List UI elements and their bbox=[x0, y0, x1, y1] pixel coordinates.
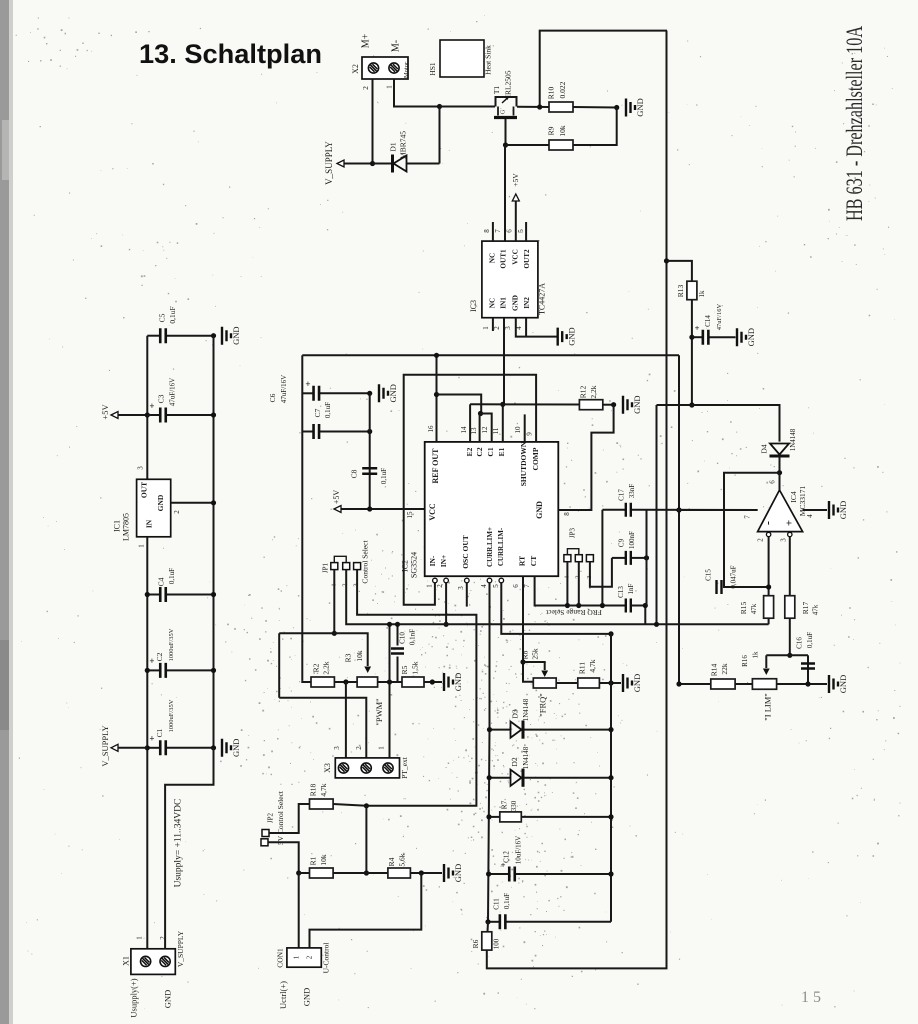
resistor R17 vertical bbox=[785, 596, 795, 619]
ground GND at R11 bbox=[623, 674, 632, 692]
ground GND at R5 bbox=[444, 673, 453, 691]
svg-text:OUT1: OUT1 bbox=[500, 249, 508, 269]
op IC3 box bbox=[482, 241, 538, 318]
node C6 right bbox=[367, 391, 372, 396]
pin stub 8 NC bbox=[492, 222, 494, 241]
svg-text:C1: C1 bbox=[486, 447, 495, 456]
svg-text:GND: GND bbox=[838, 675, 848, 693]
wire gate node to R9 bbox=[506, 144, 550, 146]
wire D4 top line bbox=[657, 405, 780, 442]
svg-text:1nF: 1nF bbox=[627, 583, 635, 594]
pin stub 6 VCC supply bbox=[515, 201, 517, 241]
svg-text:13. Schaltplan: 13. Schaltplan bbox=[139, 39, 322, 69]
svg-text:3: 3 bbox=[137, 466, 145, 470]
wire R18 right bbox=[333, 804, 366, 806]
svg-text:C11: C11 bbox=[493, 898, 501, 910]
svg-text:4: 4 bbox=[806, 514, 814, 518]
svg-text:M+: M+ bbox=[360, 33, 371, 48]
resistor R15 vertical bbox=[764, 596, 774, 619]
svg-text:1k: 1k bbox=[752, 651, 760, 659]
svg-text:+: + bbox=[784, 520, 796, 526]
svg-text:+: + bbox=[149, 401, 154, 411]
ground GND at C14 bbox=[737, 328, 746, 346]
node JP3 pin1 bbox=[565, 603, 570, 608]
pin stub 5 NC bbox=[525, 222, 527, 241]
terminal block X2 bbox=[362, 57, 408, 79]
svg-text:X2: X2 bbox=[351, 64, 360, 74]
wire V+ pin7 bbox=[676, 509, 758, 511]
feedback frame bottom to X3 pin2 bbox=[279, 698, 366, 758]
svg-text:GND: GND bbox=[567, 327, 577, 345]
capacitor C14 electrolytic bbox=[692, 336, 703, 338]
svg-text:IN2: IN2 bbox=[523, 297, 531, 309]
frq box left edge bbox=[601, 510, 603, 606]
node pin16 mid bbox=[434, 392, 439, 397]
svg-text:1N4148: 1N4148 bbox=[522, 746, 530, 769]
node frq left bottom bbox=[600, 603, 605, 608]
resistor R1 bbox=[310, 868, 334, 878]
svg-text:6: 6 bbox=[506, 229, 514, 233]
svg-text:D1: D1 bbox=[389, 142, 398, 151]
wire R3 R5 bbox=[378, 681, 402, 683]
svg-text:-: - bbox=[761, 521, 775, 525]
svg-text:TC4427A: TC4427A bbox=[537, 283, 546, 315]
frq box right edge bbox=[646, 510, 648, 606]
node C2 right bbox=[211, 668, 216, 673]
capacitor C12 electrolytic bbox=[489, 873, 509, 875]
svg-text:C2: C2 bbox=[155, 652, 164, 661]
capacitor C15 bbox=[717, 580, 722, 594]
svg-text:MC33171: MC33171 bbox=[798, 486, 807, 517]
wire X1 pin2 to gnd rail bbox=[165, 748, 213, 949]
net flag V_SUPPLY bbox=[337, 160, 344, 167]
diode D2 1N4148 bbox=[489, 777, 510, 779]
pin circle 1 bbox=[433, 578, 438, 583]
wire JP3 pin2 down bbox=[578, 562, 580, 606]
node C2 left bbox=[145, 668, 150, 673]
svg-text:+: + bbox=[149, 734, 154, 744]
wire JP1 pin2 to IN+ line bbox=[346, 570, 768, 625]
svg-text:OUT: OUT bbox=[140, 482, 149, 498]
svg-text:C17: C17 bbox=[618, 489, 626, 501]
svg-text:R5: R5 bbox=[400, 665, 409, 674]
diode D1 MBR745 bbox=[407, 163, 440, 165]
wire IN+ pin2 bbox=[445, 583, 447, 625]
node pin16 top bbox=[434, 353, 439, 358]
ground GND at C6 bbox=[379, 384, 388, 402]
svg-text:Control Select: Control Select bbox=[361, 540, 370, 584]
capacitor C7 line bbox=[302, 431, 313, 433]
svg-text:+5V: +5V bbox=[511, 173, 520, 187]
potentiometer R3 bbox=[357, 677, 378, 687]
svg-text:10k: 10k bbox=[558, 125, 567, 137]
wire R12 to GND bbox=[603, 404, 614, 406]
wire IN1 down to SG3524 E-line bbox=[503, 318, 505, 405]
svg-text:C8: C8 bbox=[350, 469, 359, 478]
node diode bus top bbox=[608, 631, 613, 636]
ground GND at IC4 bbox=[829, 501, 838, 519]
net flag +5V left bbox=[111, 412, 118, 419]
svg-text:4: 4 bbox=[480, 584, 488, 588]
wire top loop gate drive bbox=[540, 31, 667, 107]
svg-text:R1: R1 bbox=[309, 856, 318, 865]
node V+ opamp junction bbox=[676, 507, 681, 512]
resistor R7 bbox=[500, 812, 522, 822]
wire GND pin8 loop bbox=[558, 405, 613, 510]
svg-text:5: 5 bbox=[517, 229, 525, 233]
node T1-R10 bbox=[537, 104, 542, 109]
svg-text:0,1nF: 0,1nF bbox=[409, 629, 417, 645]
svg-text:R13: R13 bbox=[676, 285, 685, 298]
svg-text:GND: GND bbox=[535, 501, 544, 519]
svg-text:R8: R8 bbox=[521, 650, 530, 659]
svg-text:1 5: 1 5 bbox=[801, 989, 821, 1006]
feedback frame left bbox=[278, 633, 280, 698]
svg-text:Motor: Motor bbox=[403, 61, 410, 78]
connector CON1 bbox=[287, 948, 321, 967]
svg-text:7: 7 bbox=[523, 584, 531, 588]
svg-text:GND: GND bbox=[156, 494, 165, 511]
resistor R2 bbox=[311, 677, 334, 687]
svg-text:"FRQ": "FRQ" bbox=[537, 693, 547, 716]
capacitor C1 electrolytic bbox=[147, 747, 160, 749]
svg-text:6: 6 bbox=[769, 480, 777, 484]
svg-text:R18: R18 bbox=[309, 784, 318, 797]
svg-text:1: 1 bbox=[426, 584, 434, 588]
svg-text:GND: GND bbox=[838, 501, 848, 519]
svg-text:C15: C15 bbox=[705, 569, 713, 581]
node C4 right bbox=[211, 592, 216, 597]
svg-text:GND: GND bbox=[453, 673, 463, 691]
node C12 left bbox=[486, 871, 491, 876]
net flag +5V at IC3 bbox=[512, 194, 519, 201]
svg-text:2: 2 bbox=[306, 955, 314, 959]
svg-text:IN+: IN+ bbox=[439, 555, 448, 568]
svg-text:GND: GND bbox=[512, 295, 520, 311]
node C10 top bbox=[395, 622, 400, 627]
svg-text:M-: M- bbox=[390, 40, 401, 52]
svg-text:C2: C2 bbox=[475, 447, 484, 456]
net flag +5V VCC bbox=[334, 506, 341, 513]
wire JP1 pin1 down bbox=[333, 570, 335, 634]
wire C11 to R6 bbox=[487, 922, 490, 932]
svg-text:IN-: IN- bbox=[428, 555, 437, 566]
svg-text:X3: X3 bbox=[323, 763, 332, 773]
node R3 R5 junction bbox=[387, 679, 392, 684]
svg-text:7: 7 bbox=[744, 515, 752, 519]
svg-text:"PWM": "PWM" bbox=[374, 698, 384, 725]
ground GND at C5 bbox=[222, 327, 231, 345]
feedback frame top bbox=[279, 633, 368, 666]
wire feedback loop bbox=[724, 473, 780, 587]
wire IC1 GND pin bbox=[171, 502, 214, 504]
svg-text:CURR.LIM+: CURR.LIM+ bbox=[486, 527, 494, 567]
svg-text:1N4148: 1N4148 bbox=[522, 698, 530, 721]
node IC1 gnd rail bbox=[211, 500, 216, 505]
svg-text:1: 1 bbox=[378, 746, 386, 750]
svg-text:IN1: IN1 bbox=[500, 297, 508, 309]
svg-text:V_SUPPLY: V_SUPPLY bbox=[176, 930, 185, 967]
wire pin5 currlim- bbox=[501, 583, 611, 634]
ground GND at R16 bbox=[829, 675, 838, 693]
svg-text:JP1: JP1 bbox=[322, 562, 330, 573]
svg-text:1: 1 bbox=[138, 544, 146, 548]
svg-text:C1: C1 bbox=[155, 728, 164, 737]
wire R10 to GND bbox=[573, 106, 617, 109]
svg-text:11: 11 bbox=[492, 427, 500, 434]
svg-text:GND: GND bbox=[388, 384, 398, 402]
svg-text:2: 2 bbox=[436, 584, 444, 588]
svg-text:GND: GND bbox=[632, 395, 642, 413]
svg-text:CON1: CON1 bbox=[276, 948, 285, 968]
wire noninverting input bbox=[789, 532, 791, 596]
svg-text:R6: R6 bbox=[471, 939, 480, 948]
svg-text:2: 2 bbox=[173, 510, 181, 514]
svg-text:OSC OUT: OSC OUT bbox=[461, 535, 470, 569]
svg-text:U-Control: U-Control bbox=[322, 943, 331, 974]
node C13 right bbox=[643, 603, 648, 608]
node M+ junction bbox=[370, 161, 375, 166]
wire CON1 pin1 up bbox=[298, 873, 300, 948]
pin circle 3 bbox=[465, 578, 470, 583]
node ILIM ref bbox=[787, 653, 792, 658]
svg-text:+5V: +5V bbox=[100, 404, 110, 420]
wire bottom rail bbox=[487, 31, 667, 969]
rail opamp out bbox=[656, 405, 658, 624]
ground GND at IC3 bbox=[558, 328, 567, 346]
svg-text:1: 1 bbox=[293, 955, 301, 959]
svg-text:R15: R15 bbox=[739, 602, 748, 615]
svg-text:0,047uF: 0,047uF bbox=[730, 565, 738, 588]
svg-text:NC: NC bbox=[489, 298, 497, 308]
svg-text:IN: IN bbox=[145, 519, 154, 528]
node D2 right bbox=[608, 775, 613, 780]
jumper JP1 bbox=[331, 563, 338, 570]
svg-text:3: 3 bbox=[333, 746, 341, 750]
svg-text:2,2k: 2,2k bbox=[589, 385, 598, 398]
rail diode bus bbox=[610, 634, 612, 922]
svg-text:0,1uF: 0,1uF bbox=[503, 893, 511, 909]
svg-text:RT: RT bbox=[518, 556, 527, 566]
wire M- to drain bbox=[394, 79, 440, 107]
scan left edge band bbox=[0, 0, 9, 1024]
svg-text:GND: GND bbox=[231, 326, 241, 344]
wire R11 to GND bbox=[599, 682, 621, 684]
ground GND at R12 bbox=[623, 396, 632, 414]
svg-text:GND: GND bbox=[301, 988, 311, 1006]
node C4 left bbox=[145, 592, 150, 597]
svg-text:13: 13 bbox=[470, 427, 478, 435]
svg-text:Usupply(+): Usupply(+) bbox=[128, 978, 138, 1017]
wiper arrow R16 bbox=[765, 655, 767, 668]
jumper JP2 bbox=[262, 830, 269, 837]
node D3 left bbox=[487, 727, 492, 732]
wire R4 to GND bbox=[410, 872, 442, 874]
svg-text:C9: C9 bbox=[618, 538, 626, 547]
svg-text:12: 12 bbox=[481, 426, 489, 434]
svg-text:47k: 47k bbox=[750, 603, 758, 614]
capacitor C8 bbox=[362, 468, 377, 474]
resistor R9 bbox=[549, 140, 573, 150]
potentiometer R8 bbox=[533, 678, 556, 688]
wire R14 to pot bbox=[735, 683, 752, 685]
node collectors bbox=[478, 411, 483, 416]
svg-text:1000uF/35V: 1000uF/35V bbox=[168, 699, 175, 732]
node gate junction bbox=[503, 142, 508, 147]
wire R13 to C14 bbox=[691, 300, 693, 405]
pin 9 comp wire bbox=[404, 375, 536, 605]
wire inverting input bbox=[768, 532, 770, 596]
net flag V_SUPPLY mid bbox=[111, 744, 118, 751]
svg-text:0,1uF: 0,1uF bbox=[806, 632, 814, 648]
node C1 right bbox=[211, 745, 216, 750]
svg-text:IC4: IC4 bbox=[789, 491, 798, 503]
node R2 R3 junction bbox=[343, 679, 348, 684]
svg-text:1: 1 bbox=[482, 326, 490, 330]
wire pin4 currlim to diode bus bbox=[488, 583, 490, 922]
svg-text:V_SUPPLY: V_SUPPLY bbox=[100, 725, 110, 766]
svg-text:CURR.LIM-: CURR.LIM- bbox=[497, 527, 505, 566]
svg-text:R9: R9 bbox=[547, 126, 556, 135]
node drain corner bbox=[437, 104, 442, 109]
node opamp out bbox=[777, 470, 782, 475]
node C12 right bbox=[608, 871, 613, 876]
svg-text:10k: 10k bbox=[319, 854, 328, 866]
svg-text:R10: R10 bbox=[547, 87, 556, 100]
wire R7 right bbox=[521, 816, 611, 818]
svg-text:C14: C14 bbox=[704, 315, 712, 327]
svg-text:OUT2: OUT2 bbox=[523, 249, 531, 269]
svg-text:3: 3 bbox=[780, 538, 788, 542]
node D3 right bbox=[608, 727, 613, 732]
resistor R11 bbox=[578, 678, 600, 688]
node C16 bottom bbox=[805, 681, 810, 686]
svg-text:"I LIM": "I LIM" bbox=[762, 693, 772, 720]
wire ILIM wiper line bbox=[766, 654, 808, 656]
wire junction to X3 pin3 bbox=[345, 682, 347, 758]
svg-text:E1: E1 bbox=[497, 447, 506, 456]
svg-text:1k: 1k bbox=[698, 290, 706, 298]
rail +5V vertical x303 bbox=[301, 355, 303, 680]
wire R18 junction down to R1 line bbox=[365, 806, 367, 873]
svg-text:8: 8 bbox=[563, 512, 571, 516]
wire IC3 GND pins to ground bbox=[516, 318, 558, 337]
svg-text:5: 5 bbox=[492, 584, 500, 588]
svg-text:MBR745: MBR745 bbox=[399, 131, 408, 159]
svg-text:10k: 10k bbox=[355, 650, 364, 662]
node R5 gnd bbox=[430, 679, 435, 684]
svg-text:100nF: 100nF bbox=[628, 531, 636, 549]
potentiometer R16 ILIM bbox=[752, 679, 776, 690]
svg-text:R17: R17 bbox=[801, 602, 810, 615]
node C1 left V_SUPPLY bbox=[145, 745, 150, 750]
capacitor C10 bbox=[397, 624, 399, 645]
node R7 right bbox=[608, 814, 613, 819]
svg-text:R4: R4 bbox=[387, 857, 396, 866]
diode D4 1N4148 bbox=[770, 455, 790, 458]
wire junction to X3 pin1 bbox=[389, 682, 391, 758]
svg-text:FRQ Range Select: FRQ Range Select bbox=[545, 608, 602, 617]
svg-text:10uF/16V: 10uF/16V bbox=[515, 836, 523, 864]
wire CON1 pin2 loop bbox=[310, 873, 422, 948]
wire R15 bottom bbox=[768, 618, 770, 624]
node D2 left bbox=[487, 775, 492, 780]
diode D3 1N4148 bbox=[490, 729, 511, 731]
node C7 right bbox=[367, 429, 372, 434]
svg-text:JP3: JP3 bbox=[569, 527, 577, 538]
svg-text:Uctrl(+): Uctrl(+) bbox=[278, 981, 288, 1009]
svg-text:V_SUPPLY: V_SUPPLY bbox=[324, 141, 334, 185]
wire +5V rail left bbox=[146, 336, 148, 480]
wire drain to T1 bbox=[440, 106, 496, 108]
node C3 left bbox=[145, 412, 150, 417]
svg-text:REF OUT: REF OUT bbox=[431, 448, 440, 484]
capacitor C6 electrolytic bbox=[302, 392, 313, 394]
resistor R14 bbox=[711, 679, 735, 689]
svg-text:47uF/16V: 47uF/16V bbox=[169, 378, 177, 406]
node R1 left junction bbox=[296, 870, 301, 875]
svg-text:16: 16 bbox=[427, 425, 435, 433]
node control line branch bbox=[387, 622, 392, 627]
svg-text:C10: C10 bbox=[399, 632, 407, 644]
svg-text:2: 2 bbox=[493, 326, 501, 330]
svg-text:6: 6 bbox=[512, 584, 520, 588]
node rail to R14 bbox=[676, 681, 681, 686]
svg-text:GND: GND bbox=[746, 328, 756, 346]
svg-text:VCC: VCC bbox=[512, 249, 520, 265]
svg-text:47uF/16V: 47uF/16V bbox=[280, 375, 288, 403]
node JP3 pin2 junction bbox=[576, 603, 581, 608]
rail +5V top horizontal bbox=[302, 354, 679, 356]
svg-text:C13: C13 bbox=[617, 586, 625, 598]
svg-text:Heat Sink: Heat Sink bbox=[484, 45, 493, 75]
node IN+ on control line bbox=[444, 622, 449, 627]
svg-text:GND: GND bbox=[231, 739, 241, 757]
svg-text:+5V: +5V bbox=[332, 490, 341, 505]
wire R2 R3 bbox=[334, 681, 357, 683]
wire pin6 RT to R8 bbox=[523, 576, 533, 682]
svg-text:R2: R2 bbox=[312, 663, 321, 672]
svg-text:7: 7 bbox=[494, 229, 502, 233]
resistor R6 vertical bbox=[482, 932, 492, 950]
svg-text:47k: 47k bbox=[812, 604, 820, 615]
svg-text:100: 100 bbox=[493, 938, 501, 949]
node C14 junction bbox=[689, 335, 694, 340]
pwm IC2 SG3524 box bbox=[425, 442, 559, 576]
node R7 left bbox=[486, 814, 491, 819]
wire pin7 CT down bbox=[535, 576, 579, 605]
wire gate node down to OUT1 bbox=[504, 145, 506, 241]
resistor R12 bbox=[579, 400, 602, 410]
svg-text:GND: GND bbox=[453, 864, 463, 882]
capacitor C9 line bbox=[612, 557, 626, 559]
terminal block X3 bbox=[335, 758, 399, 778]
svg-text:E2: E2 bbox=[465, 447, 474, 456]
svg-text:C6: C6 bbox=[268, 393, 277, 402]
node RT wiper bbox=[520, 659, 525, 664]
svg-text:2: 2 bbox=[341, 583, 348, 586]
svg-text:C7: C7 bbox=[313, 408, 322, 417]
node C9 right bbox=[644, 555, 649, 560]
svg-text:33nF: 33nF bbox=[628, 484, 636, 499]
pin 14 stub bbox=[469, 404, 471, 442]
svg-text:1N4148: 1N4148 bbox=[789, 428, 797, 451]
opamp IC4 MC33171 bbox=[758, 490, 803, 532]
pin circle 4 bbox=[487, 578, 492, 583]
pin circle 2 bbox=[444, 578, 449, 583]
svg-text:+: + bbox=[695, 323, 700, 333]
svg-text:10: 10 bbox=[514, 426, 522, 434]
